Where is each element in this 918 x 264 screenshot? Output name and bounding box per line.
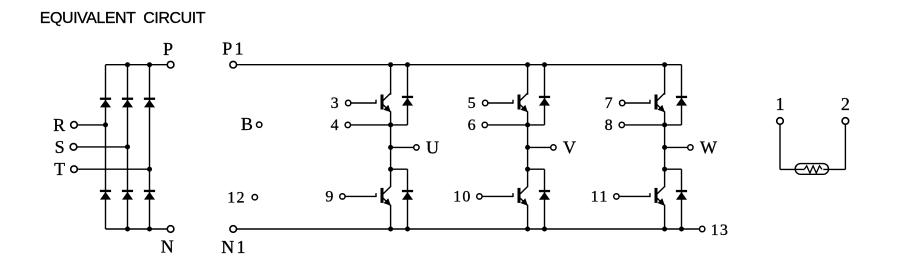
node junction T leg3 [147,167,152,172]
wire lower emitter to bottom rail U [390,205,392,229]
node junction R leg1 [103,122,108,127]
terminal gate pin 7 [620,100,625,105]
node junction top rail phase U diode [405,62,410,67]
wire collector column upper U [390,65,392,95]
wire upper freewheel diode branch U [391,65,408,125]
svg-text:12: 12 [227,189,246,206]
wire lower emitter to bottom rail V [527,205,529,229]
wire collector column upper V [527,65,529,95]
node junction bottom rail U emitter [388,227,393,232]
wire thermistor left lead [780,124,804,169]
svg-text:S: S [55,137,65,157]
node junction S leg2 [125,144,130,149]
wire N1 bottom rail [236,228,699,230]
wire pin 8 to emitter node [624,124,664,126]
transistor lower IGBT pin 11 phase W [650,186,665,205]
wire pin 4 to emitter node [350,124,390,126]
svg-text:9: 9 [325,189,333,206]
diode D2 [100,190,111,200]
node junction output U [388,145,393,150]
wire output lead W [665,146,688,148]
node junction top rail leg3 [147,62,152,67]
node junction lower diode tap V [525,167,530,172]
terminal 12 [252,195,257,200]
node junction bottom rail leg3 [147,227,152,232]
wire gate lead pin 7 [625,102,650,104]
svg-text:EQUIVALENT: EQUIVALENT [40,10,136,27]
node junction lower diode tap W [662,167,667,172]
diode D4 [122,190,133,200]
svg-text:8: 8 [605,117,613,134]
wire lower freewheel diode branch V [528,169,545,229]
wire pin 6 to emitter node [487,124,527,126]
terminal gate pin 3 [346,100,351,105]
node junction output V [525,145,530,150]
terminal output W [688,145,693,150]
terminal gate pin 5 [483,100,488,105]
diode upper freewheel V [539,96,550,106]
wire upper freewheel diode branch W [665,65,682,125]
wire lower freewheel diode branch U [391,169,408,229]
svg-text:13: 13 [711,222,730,239]
svg-text:N1: N1 [221,237,247,257]
node junction top rail phase V diode [542,62,547,67]
terminal S [70,144,77,151]
node junction top rail leg2 [125,62,130,67]
wire output lead U [391,146,414,148]
diode lower freewheel V [539,190,550,200]
svg-text:U: U [426,138,439,158]
terminal 2 [842,118,849,125]
svg-text:V: V [563,138,576,158]
transistor lower IGBT pin 10 phase V [513,186,528,205]
svg-text:5: 5 [468,95,476,112]
terminal 1 [777,118,784,125]
svg-text:4: 4 [331,117,339,134]
wire gate lead pin 3 [351,102,376,104]
wire gate lead pin 10 [482,195,513,197]
svg-text:10: 10 [453,189,472,206]
node junction bottom rail U diode [405,227,410,232]
diode lower freewheel W [676,190,687,200]
diode D1 [100,98,111,108]
svg-text:6: 6 [468,117,476,134]
wire rectifier top rail [106,64,168,66]
svg-text:1: 1 [776,94,785,114]
node junction bottom rail W emitter [662,227,667,232]
node junction bottom rail W diode [679,227,684,232]
transistor upper IGBT pin 3 phase U [376,93,391,112]
diode upper freewheel U [402,96,413,106]
svg-text:T: T [54,159,65,179]
node junction lower diode tap U [388,167,393,172]
node junction emitter pin 4 [388,122,393,127]
wire rectifier leg 1 [105,65,107,229]
svg-text:3: 3 [331,95,339,112]
terminal gate pin 11 [614,194,619,199]
terminal output U [414,145,419,150]
node junction bottom rail V emitter [525,227,530,232]
wire collector column upper W [664,65,666,95]
node junction top rail phase U collector [388,62,393,67]
terminal P [167,61,174,68]
terminal gate pin 9 [340,194,345,199]
svg-text:B: B [241,114,253,134]
node junction top rail phase W collector [662,62,667,67]
svg-text:R: R [53,115,65,135]
terminal R [71,122,78,129]
wire rectifier leg 2 [127,65,129,229]
wire T to leg3 [77,168,149,170]
node junction output W [662,145,667,150]
node junction top rail phase V collector [525,62,530,67]
svg-text:11: 11 [591,189,609,206]
wire emitter column W [664,112,666,187]
transistor upper IGBT pin 7 phase W [650,93,665,112]
terminal 13 [700,226,705,231]
svg-text:CIRCUIT: CIRCUIT [143,10,205,27]
thermistor TH [795,164,828,175]
wire lower freewheel diode branch W [665,169,682,229]
node junction emitter pin 8 [662,122,667,127]
wire P1 top rail [236,64,681,66]
wire output lead V [528,146,551,148]
wire S to leg2 [77,146,128,148]
wire emitter column U [390,112,392,187]
wire gate lead pin 9 [345,195,376,197]
svg-text:7: 7 [605,95,613,112]
wire emitter column V [527,112,529,187]
svg-text:P: P [163,39,173,59]
wire R to leg1 [77,124,105,126]
diode D3 [122,98,133,108]
transistor upper IGBT pin 5 phase V [513,93,528,112]
terminal emitter pin 6 [482,122,487,127]
terminal emitter pin 4 [345,122,350,127]
wire upper freewheel diode branch V [528,65,545,125]
svg-text:P1: P1 [222,39,245,59]
svg-text:2: 2 [841,94,850,114]
svg-text:N: N [161,236,174,256]
diode upper freewheel W [676,96,687,106]
node junction bottom rail leg2 [125,227,130,232]
node junction emitter pin 6 [525,122,530,127]
wire thermistor right lead [823,124,845,169]
wire rectifier bottom rail [106,228,168,230]
terminal output V [551,145,556,150]
diode D5 [144,98,155,108]
transistor lower IGBT pin 9 phase U [376,186,391,205]
wire rectifier leg 3 [149,65,151,229]
terminal N [167,226,174,233]
terminal T [71,166,78,173]
wire gate lead pin 11 [619,195,650,197]
wire gate lead pin 5 [488,102,513,104]
terminal emitter pin 8 [619,122,624,127]
svg-text:W: W [700,138,717,158]
node junction bottom rail V diode [542,227,547,232]
terminal gate pin 10 [477,194,482,199]
terminal B [257,122,262,127]
terminal N1 [230,226,237,233]
wire lower emitter to bottom rail W [664,205,666,229]
diode lower freewheel U [402,190,413,200]
diode D6 [144,190,155,200]
terminal P1 [230,61,237,68]
